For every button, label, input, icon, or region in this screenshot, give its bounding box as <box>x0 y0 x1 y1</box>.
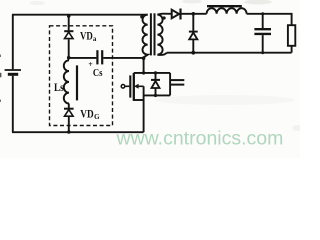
transistor Q MOSFET gate circle <box>121 85 125 89</box>
battery E source <box>12 15 14 69</box>
wire secondary bottom lead <box>157 53 167 55</box>
capacitor Cs <box>96 50 98 64</box>
wire VDa branch <box>68 15 70 31</box>
node freewheel top junction <box>192 12 196 16</box>
wire top rail <box>12 14 148 16</box>
MOSFET body arrow <box>138 85 144 87</box>
wire loop right vertical <box>169 73 171 96</box>
resistor load <box>288 25 295 46</box>
svg-text:VD: VD <box>80 30 93 42</box>
wire drain vertical <box>143 58 145 73</box>
svg-text:Cs: Cs <box>93 68 103 79</box>
svg-text:www.cntronics.com: www.cntronics.com <box>116 128 284 150</box>
node VDG-bottom-rail junction <box>67 130 71 134</box>
wire drain stub and loop top <box>134 72 170 74</box>
wire secondary top lead <box>157 14 171 15</box>
svg-text:a: a <box>93 35 97 43</box>
inductor core bar <box>207 5 242 7</box>
capacitor parallel to MOSFET <box>171 79 184 81</box>
wire loop bottom <box>144 94 171 96</box>
svg-text:VD: VD <box>80 109 93 121</box>
wire Ls to VDG <box>68 104 70 109</box>
diode VDa <box>64 30 73 32</box>
svg-text:Ls: Ls <box>54 82 64 94</box>
wire gate lead <box>125 85 130 87</box>
diode VDG <box>64 108 74 110</box>
wire top right <box>247 14 292 25</box>
transformer secondary winding <box>157 15 162 55</box>
inductor Ls <box>64 60 69 103</box>
inductor output filter <box>207 8 247 14</box>
wire node A to Cs <box>69 57 97 59</box>
node drain junction <box>142 56 146 60</box>
diode rectifier <box>172 10 179 19</box>
diode body of MOSFET <box>155 73 157 79</box>
diode freewheel <box>192 14 194 31</box>
edge speck marks <box>0 55 1 58</box>
Ls core bar <box>76 65 78 100</box>
snubber dashed box <box>50 26 113 126</box>
MOSFET gate bar <box>129 75 131 97</box>
svg-text:G: G <box>94 113 100 121</box>
wire bottom rail secondary side <box>167 52 292 54</box>
node top-rail junction <box>67 14 71 18</box>
wire rectifier to inductor <box>181 13 206 15</box>
wire Cs to drain node <box>103 57 143 59</box>
polarity dot secondary <box>163 16 166 19</box>
node A junction <box>67 56 71 60</box>
wire source vertical <box>143 86 145 132</box>
node freewheel bottom junction <box>191 51 195 55</box>
faint scan smudges <box>155 95 295 105</box>
wire resistor bottom <box>291 46 293 53</box>
transformer T primary winding <box>142 15 147 59</box>
transformer core <box>150 13 152 55</box>
polarity dot primary <box>140 15 143 18</box>
MOSFET channel bar <box>133 73 135 101</box>
capacitor output <box>261 12 264 15</box>
wire source stub <box>134 99 144 101</box>
wire bottom rail primary side <box>12 131 144 133</box>
